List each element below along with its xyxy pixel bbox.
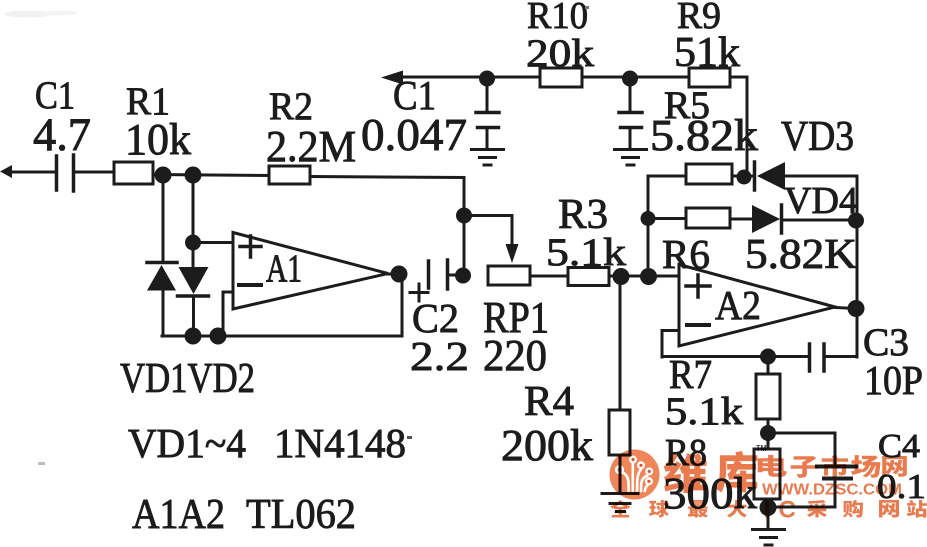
scan smudge top left: [4, 11, 78, 18]
svg-text:R6: R6: [662, 232, 710, 277]
ground (under second capacitor): [615, 150, 647, 166]
svg-text:4.7: 4.7: [33, 109, 91, 161]
wire VD1 vertical: [162, 175, 165, 336]
svg-text:TL062: TL062: [246, 491, 356, 538]
svg-text:10k: 10k: [125, 116, 191, 164]
svg-text:TM: TM: [756, 444, 767, 453]
wire A1 plus input: [193, 241, 233, 244]
wire A1 output: [388, 273, 399, 276]
resistor R10: [540, 68, 582, 87]
diode VD2: [178, 267, 209, 296]
node R6 branch: [641, 211, 656, 226]
wire: [730, 218, 752, 221]
op-amp A1: [233, 233, 388, 310]
svg-text:A2: A2: [715, 283, 761, 328]
op-amp A2: [679, 265, 835, 347]
wire A2 plus input: [648, 275, 679, 278]
wire: [783, 219, 857, 222]
wire: [530, 275, 568, 278]
ground (under C1 0.047): [472, 150, 504, 166]
wire R3 to A2: [609, 275, 648, 278]
node R7/R8: [760, 425, 776, 441]
svg-text:R2: R2: [269, 84, 313, 128]
watermark brand 维库: [664, 451, 758, 493]
scan speck left: [38, 462, 45, 465]
svg-text:200k: 200k: [501, 422, 593, 470]
wire C4 top branch: [768, 433, 835, 464]
resistor R1: [114, 162, 153, 184]
wire: [732, 175, 753, 178]
svg-text:220: 220: [483, 332, 547, 380]
diode VD3: [755, 162, 786, 190]
wire right vertical bus: [856, 176, 859, 357]
wire R9 to right corner: [730, 77, 747, 177]
input arrow: [0, 165, 56, 178]
svg-text:2.2M: 2.2M: [266, 123, 356, 171]
wire A2 minus input stub: [662, 331, 679, 358]
watermark logo circle: [610, 450, 660, 500]
svg-text:20k: 20k: [526, 31, 594, 75]
watermark slogan 全球最大IC采购网站: [610, 497, 927, 524]
svg-text:1N4148: 1N4148: [274, 421, 406, 466]
resistor R6: [686, 208, 730, 228]
wire A1 minus stub: [223, 292, 233, 336]
svg-text:5.1k: 5.1k: [546, 230, 626, 274]
node A1 plus branch: [185, 235, 201, 251]
node VD1 top: [155, 167, 172, 184]
svg-text:0.047: 0.047: [361, 109, 467, 160]
wire: [785, 175, 857, 178]
svg-text:R4: R4: [524, 378, 574, 425]
capacitor C1 0.047 (to ground): [476, 78, 499, 148]
node A1 output: [391, 266, 408, 283]
node feedback left: [185, 328, 202, 345]
resistor R4: [609, 410, 630, 455]
wire A2 output: [835, 308, 857, 309]
diode VD4: [752, 205, 782, 233]
svg-text:51k: 51k: [674, 29, 741, 76]
node top filter left: [479, 71, 495, 87]
ground (bottom right): [753, 530, 785, 546]
wire C4 bottom branch: [768, 480, 835, 507]
wire RP1 wiper with arrow: [464, 216, 519, 264]
resistor R5: [686, 164, 732, 184]
svg-text:VD1~4: VD1~4: [128, 421, 246, 466]
capacitor (second 0.047 to ground): [619, 78, 642, 148]
resistor R3: [568, 268, 609, 286]
node VD2 top: [185, 167, 202, 184]
capacitor C1 4.7 (input): [57, 155, 115, 191]
resistor R8: [754, 433, 780, 508]
resistor R2: [269, 166, 310, 184]
watermark 电子市场网: [758, 455, 907, 478]
node top filter right: [622, 71, 638, 87]
node A2 output: [848, 300, 865, 317]
resistor R9: [689, 68, 730, 87]
node R5/R6 branch: [640, 268, 657, 285]
wire to ground: [767, 508, 770, 529]
node R4 branch: [613, 268, 630, 285]
node R7 top: [760, 349, 776, 365]
wire: [648, 217, 686, 220]
svg-text:C: C: [779, 497, 796, 524]
svg-text:5.82k: 5.82k: [650, 112, 758, 160]
capacitor C2: [410, 260, 463, 301]
svg-text:VD3: VD3: [781, 113, 854, 160]
wire A2 feedback: [662, 355, 809, 358]
output arrow (top left, to next stage): [381, 71, 487, 85]
wire A1 feedback bottom: [162, 274, 402, 336]
potentiometer RP1: [488, 266, 530, 285]
svg-text:A1: A1: [266, 246, 302, 290]
wire: [582, 76, 689, 79]
capacitor C3: [810, 344, 858, 371]
svg-text:A1A2: A1A2: [132, 491, 225, 538]
wire R5 left branch: [648, 176, 686, 276]
node VD3 anode: [737, 170, 752, 185]
scan speck after R10: [585, 6, 589, 9]
wire: [619, 455, 622, 493]
svg-text:5.1k: 5.1k: [665, 389, 743, 433]
node VD4 cathode: [848, 213, 864, 229]
svg-text:VD1VD2: VD1VD2: [120, 355, 255, 402]
svg-text:10P: 10P: [864, 358, 923, 403]
wire R2 to C2 node vertical: [310, 177, 464, 277]
wire R4 vertical: [619, 276, 622, 410]
svg-text:VD4: VD4: [784, 180, 858, 222]
resistor R7: [756, 357, 780, 433]
node minus join: [210, 328, 227, 345]
ground (under R4): [602, 494, 638, 512]
watermark logo circuit tree: [623, 464, 648, 491]
svg-text:5.82K: 5.82K: [745, 231, 857, 278]
svg-text:2.2: 2.2: [410, 334, 469, 379]
node RP1 wiper branch: [456, 208, 472, 224]
wire top row: [487, 76, 540, 79]
node C2 right: [455, 268, 471, 284]
node R8 bottom: [760, 499, 777, 516]
capacitor C4: [817, 467, 856, 479]
wire VD2 vertical: [192, 175, 196, 336]
wire: [153, 175, 269, 176]
scan speck after 1N4148: [407, 436, 412, 439]
diode VD1: [147, 263, 177, 291]
